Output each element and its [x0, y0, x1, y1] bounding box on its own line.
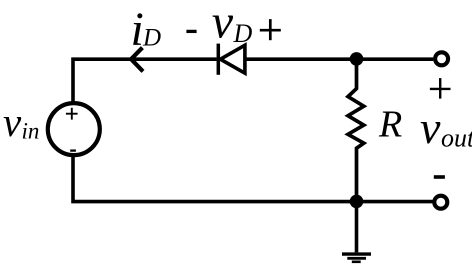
label plus (v_out) — [430, 78, 451, 99]
voltage source plus sign — [66, 108, 78, 120]
terminal top-right (open circle) — [435, 52, 448, 65]
label minus (v_out) — [434, 175, 445, 179]
label plus (of v_D) — [260, 19, 281, 40]
svg-text:out: out — [441, 124, 472, 153]
svg-text:i: i — [131, 3, 144, 56]
voltage source minus sign — [70, 149, 76, 151]
diode D1 triangle — [220, 45, 245, 73]
current arrow i_D (pointing left on top wire) — [131, 48, 143, 72]
voltage source V1 circle — [48, 103, 100, 155]
node bottom (junction dot) — [350, 195, 364, 209]
svg-text:v: v — [3, 99, 22, 145]
node top (junction dot) — [350, 52, 364, 66]
wire bottom-left L (from source bottom down and right to bottom terminal) — [73, 156, 433, 201]
wire top (diode to top-right terminal) — [246, 57, 434, 61]
svg-text:in: in — [22, 119, 40, 144]
ground symbol — [342, 254, 371, 262]
svg-text:v: v — [212, 0, 234, 49]
resistor R zigzag with leads — [348, 53, 364, 199]
svg-text:R: R — [378, 103, 402, 145]
diode D1 cathode bar — [217, 44, 221, 75]
label minus (of v_D) — [186, 30, 196, 33]
svg-text:v: v — [420, 102, 441, 153]
terminal bottom-right (open circle) — [434, 196, 447, 209]
wire top-left L (from source top up and right to diode) — [73, 59, 217, 101]
wire ground stem — [355, 201, 359, 252]
svg-text:D: D — [142, 25, 161, 52]
svg-text:D: D — [233, 19, 253, 48]
